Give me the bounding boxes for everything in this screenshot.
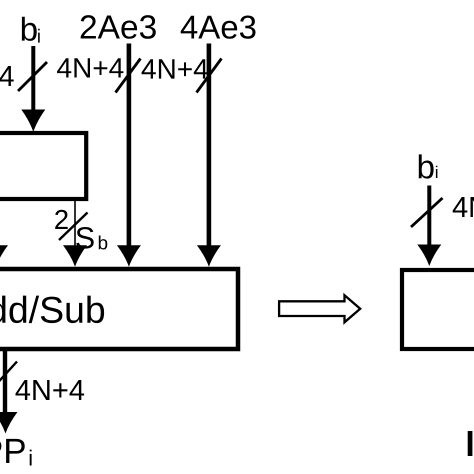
arrowhead b_i into recoder box — [21, 110, 45, 133]
recoder box U1 (cropped at left) — [0, 133, 86, 199]
bus width label 4 (cropped at left edge) — [0, 66, 14, 86]
wire S_b thin from recoder box to Add/Sub — [74, 199, 76, 252]
Add/Sub box label (text Add/Sub, left part cropped) — [0, 296, 104, 324]
wire 4Ae3 vertical — [207, 44, 212, 251]
bus width label 4N+4 on 2Ae3 wire — [57, 58, 123, 77]
bus slash on S_b wire — [59, 213, 88, 241]
bus width label 2 on S_b wire — [55, 210, 67, 229]
arrowhead output PP_i — [0, 412, 18, 434]
right box (cropped at right) — [402, 270, 474, 349]
wire b_i right vertical — [427, 186, 431, 250]
arrowhead 2Ae3 into Add/Sub — [117, 245, 141, 266]
bus width label 4N+4 on 4Ae3 wire — [142, 59, 208, 78]
bus slash on 4Ae3 wire — [197, 59, 222, 93]
node label 4Ae3 — [181, 16, 256, 39]
arrowhead right b_i into right box — [417, 245, 441, 267]
output wire PP_i — [3, 351, 7, 416]
bus slash on output wire — [0, 362, 17, 390]
bus slash on b_i wire — [18, 62, 47, 91]
net label S_b — [76, 227, 107, 250]
bus width label 4N+4 right (cropped at right edge) — [453, 197, 474, 217]
right output label first letter (cropped at right edge) — [468, 431, 473, 456]
arrowhead leftmost input into Add/Sub (cropped at left edge) — [0, 245, 8, 266]
output label PP_i (cropped at left) — [0, 439, 32, 466]
block arrow (implies transformation) — [279, 295, 360, 322]
bus slash on right b_i wire — [411, 198, 443, 227]
Add/Sub box (cropped at left) — [0, 269, 238, 349]
node label 2Ae3 — [81, 15, 156, 39]
wire 2Ae3 vertical — [127, 44, 132, 251]
bus width label 4N+4 on output wire — [16, 380, 85, 400]
arrowhead S_b into Add/Sub — [63, 245, 87, 266]
arrowhead 4Ae3 into Add/Sub — [197, 245, 221, 266]
wire b_i vertical — [31, 46, 35, 116]
node label b_i (right input) — [419, 154, 438, 178]
bus slash on 2Ae3 wire — [116, 59, 141, 93]
node label b_i (left input) — [22, 17, 40, 43]
